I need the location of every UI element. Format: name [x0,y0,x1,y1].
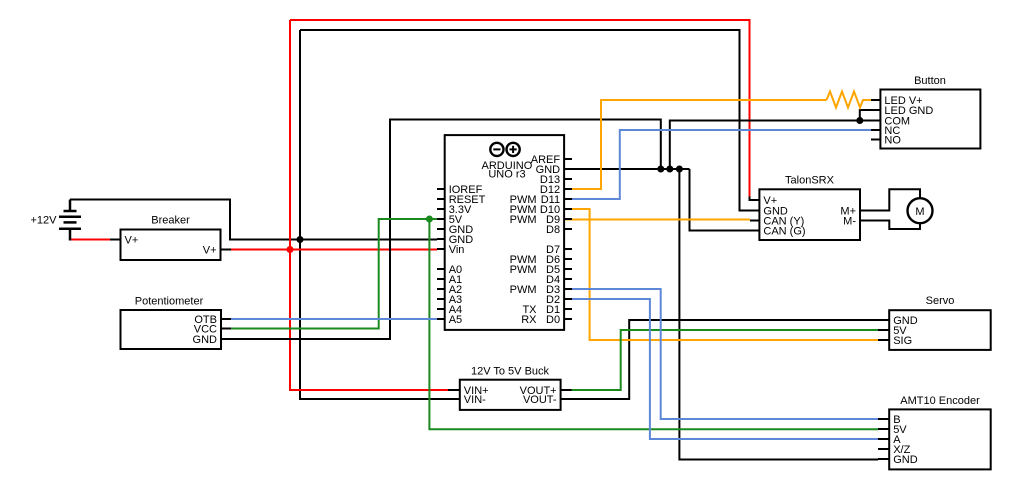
junction dot black at battery GND node [297,236,304,243]
wire buck VOUT+ to servo 5V (green) [561,330,879,390]
svg-text:Servo: Servo [926,295,955,307]
svg-text:V+: V+ [125,235,139,247]
svg-text:PWM: PWM [510,284,537,296]
motor M1 circle [908,198,933,223]
junction dot black GND bus 3 [676,166,683,173]
breaker pin stub V+ out [221,249,232,251]
arduino right pin stubs [564,159,572,319]
wire battery positive to breaker V+ in (red) [70,239,110,241]
junction dot green at 5V node [426,216,433,223]
svg-text:A5: A5 [449,314,462,326]
wire buck VOUT- to servo GND (black) [561,320,879,399]
junction dot black GND bus 1 [657,166,664,173]
wire +12V vertical x290 to buck VIN+ (red) [290,20,750,390]
potentiometer box [121,310,222,349]
svg-text:VIN-: VIN- [464,394,486,406]
svg-text:12V To 5V Buck: 12V To 5V Buck [471,366,550,378]
junction dot black at button COM node [856,117,863,124]
svg-text:AMT10 Encoder: AMT10 Encoder [900,395,980,407]
svg-text:PWM: PWM [510,264,537,276]
breaker box [121,230,221,261]
wire breaker V+ out to arduino Vin (red) [231,249,437,251]
arduino left pin labels [449,184,486,326]
svg-text:RX: RX [521,314,537,326]
resistor R1 (orange zigzag) [827,92,872,108]
TalonSRX pin stubs [750,197,760,231]
wire GND vertical x300 to buck VIN- (black) [300,30,448,399]
arduino PWM / TX / RX labels [510,194,538,326]
wire 5V junction down to AMT10 5V (green) [429,219,878,429]
svg-text:GND: GND [193,334,218,346]
arduino U1 box [445,135,564,330]
wire TalonSRX M+ to motor top (black) [860,189,920,210]
svg-text:PWM: PWM [510,214,537,226]
servo box [889,310,991,350]
svg-text:Potentiometer: Potentiometer [135,296,204,308]
button pin stubs [871,100,880,140]
wire arduino GND right to junction bus (black) [564,168,690,170]
wire potentiometer OTB to arduino A5 (blue) [221,318,437,320]
svg-text:+12V: +12V [31,215,58,227]
wire TalonSRX M- to motor bottom (black) [860,221,920,230]
AMT10 pin stubs [878,419,889,459]
svg-text:VOUT-: VOUT- [523,394,557,406]
wire junction to potentiometer GND (black) [221,120,661,340]
svg-text:M-: M- [843,216,856,228]
TalonSRX box [759,189,860,240]
svg-text:D8: D8 [546,224,560,236]
potentiometer pin stubs [221,319,231,339]
wire button LED GND down to COM wire (black) [860,110,871,121]
svg-text:NO: NO [884,135,901,147]
button box [880,90,980,149]
breaker pin stub V+ in [110,239,121,241]
wire battery negative to GND bus (black) [70,200,437,240]
wire arduino D9 to TalonSRX CAN (Y) (orange) [564,219,750,221]
wire arduino D2 to AMT10 A (blue) [564,299,878,439]
servo pin stubs [878,320,889,340]
svg-text:UNO r3: UNO r3 [488,169,525,181]
svg-text:GND: GND [893,454,918,466]
svg-text:M: M [915,206,924,218]
svg-text:Breaker: Breaker [151,215,190,227]
wire arduino D12 to resistor / button LED V+ (orange) [564,100,827,189]
AMT10 encoder box [889,409,991,469]
svg-text:TalonSRX: TalonSRX [785,174,835,186]
wire arduino D11 to button NC (blue) [564,130,871,199]
buck pin stubs [448,390,572,399]
svg-text:Vin: Vin [449,244,465,256]
wire GND top loop to TalonSRX GND (black) [300,30,750,211]
svg-text:Button: Button [914,75,946,87]
svg-text:SIG: SIG [893,335,912,347]
wire potentiometer VCC to arduino 5V (green) [221,219,438,329]
battery +12V [59,200,81,241]
wire junction to button COM (black) [670,121,871,170]
junction dot black GND bus 2 [666,166,673,173]
junction dot red at breaker output node [287,246,294,253]
svg-text:D0: D0 [546,314,560,326]
wire junction to TalonSRX CAN (G) (black) [690,169,751,231]
arduino logo circle plus [506,143,519,156]
arduino right pin labels [531,154,561,326]
wire arduino D3 to AMT10 B (blue) [564,289,878,419]
arduino left pin stubs [437,189,445,319]
buck converter box [460,380,561,410]
wire arduino D10 to servo SIG (orange) [564,209,878,340]
svg-text:CAN (G): CAN (G) [763,226,805,238]
wire junction to AMT10 GND (black) [679,169,878,460]
svg-text:V+: V+ [203,245,217,257]
arduino logo circle minus [490,143,503,156]
